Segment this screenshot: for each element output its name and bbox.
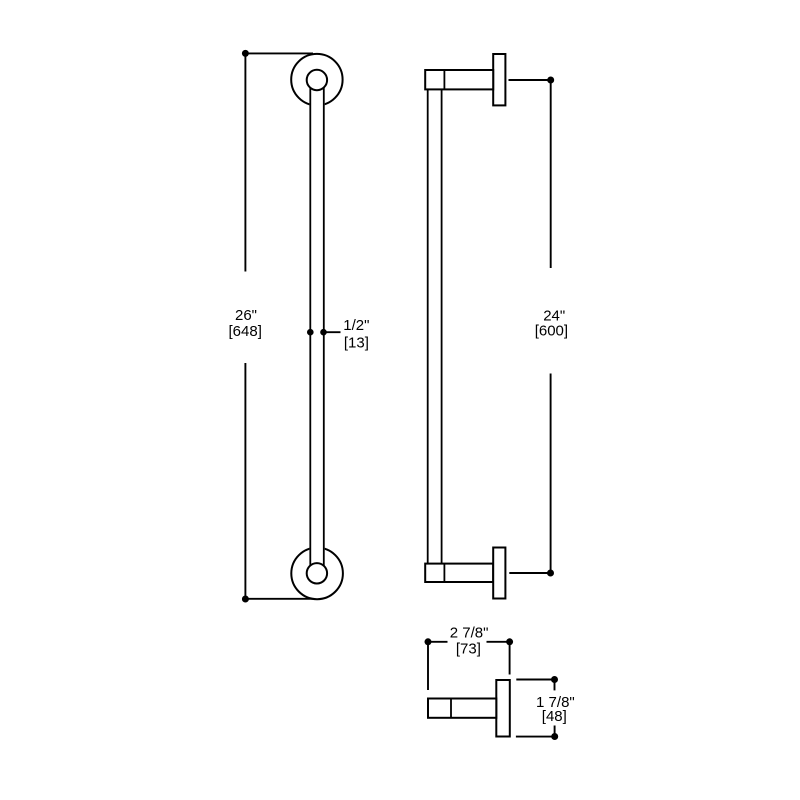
svg-text:26": 26" <box>235 307 257 324</box>
svg-text:[600]: [600] <box>535 322 568 339</box>
svg-text:1/2": 1/2" <box>343 317 369 334</box>
svg-text:[73]: [73] <box>456 641 481 658</box>
svg-text:[13]: [13] <box>344 334 369 351</box>
svg-text:[648]: [648] <box>229 323 262 340</box>
svg-text:2 7/8": 2 7/8" <box>450 625 489 642</box>
svg-text:[48]: [48] <box>542 708 567 725</box>
